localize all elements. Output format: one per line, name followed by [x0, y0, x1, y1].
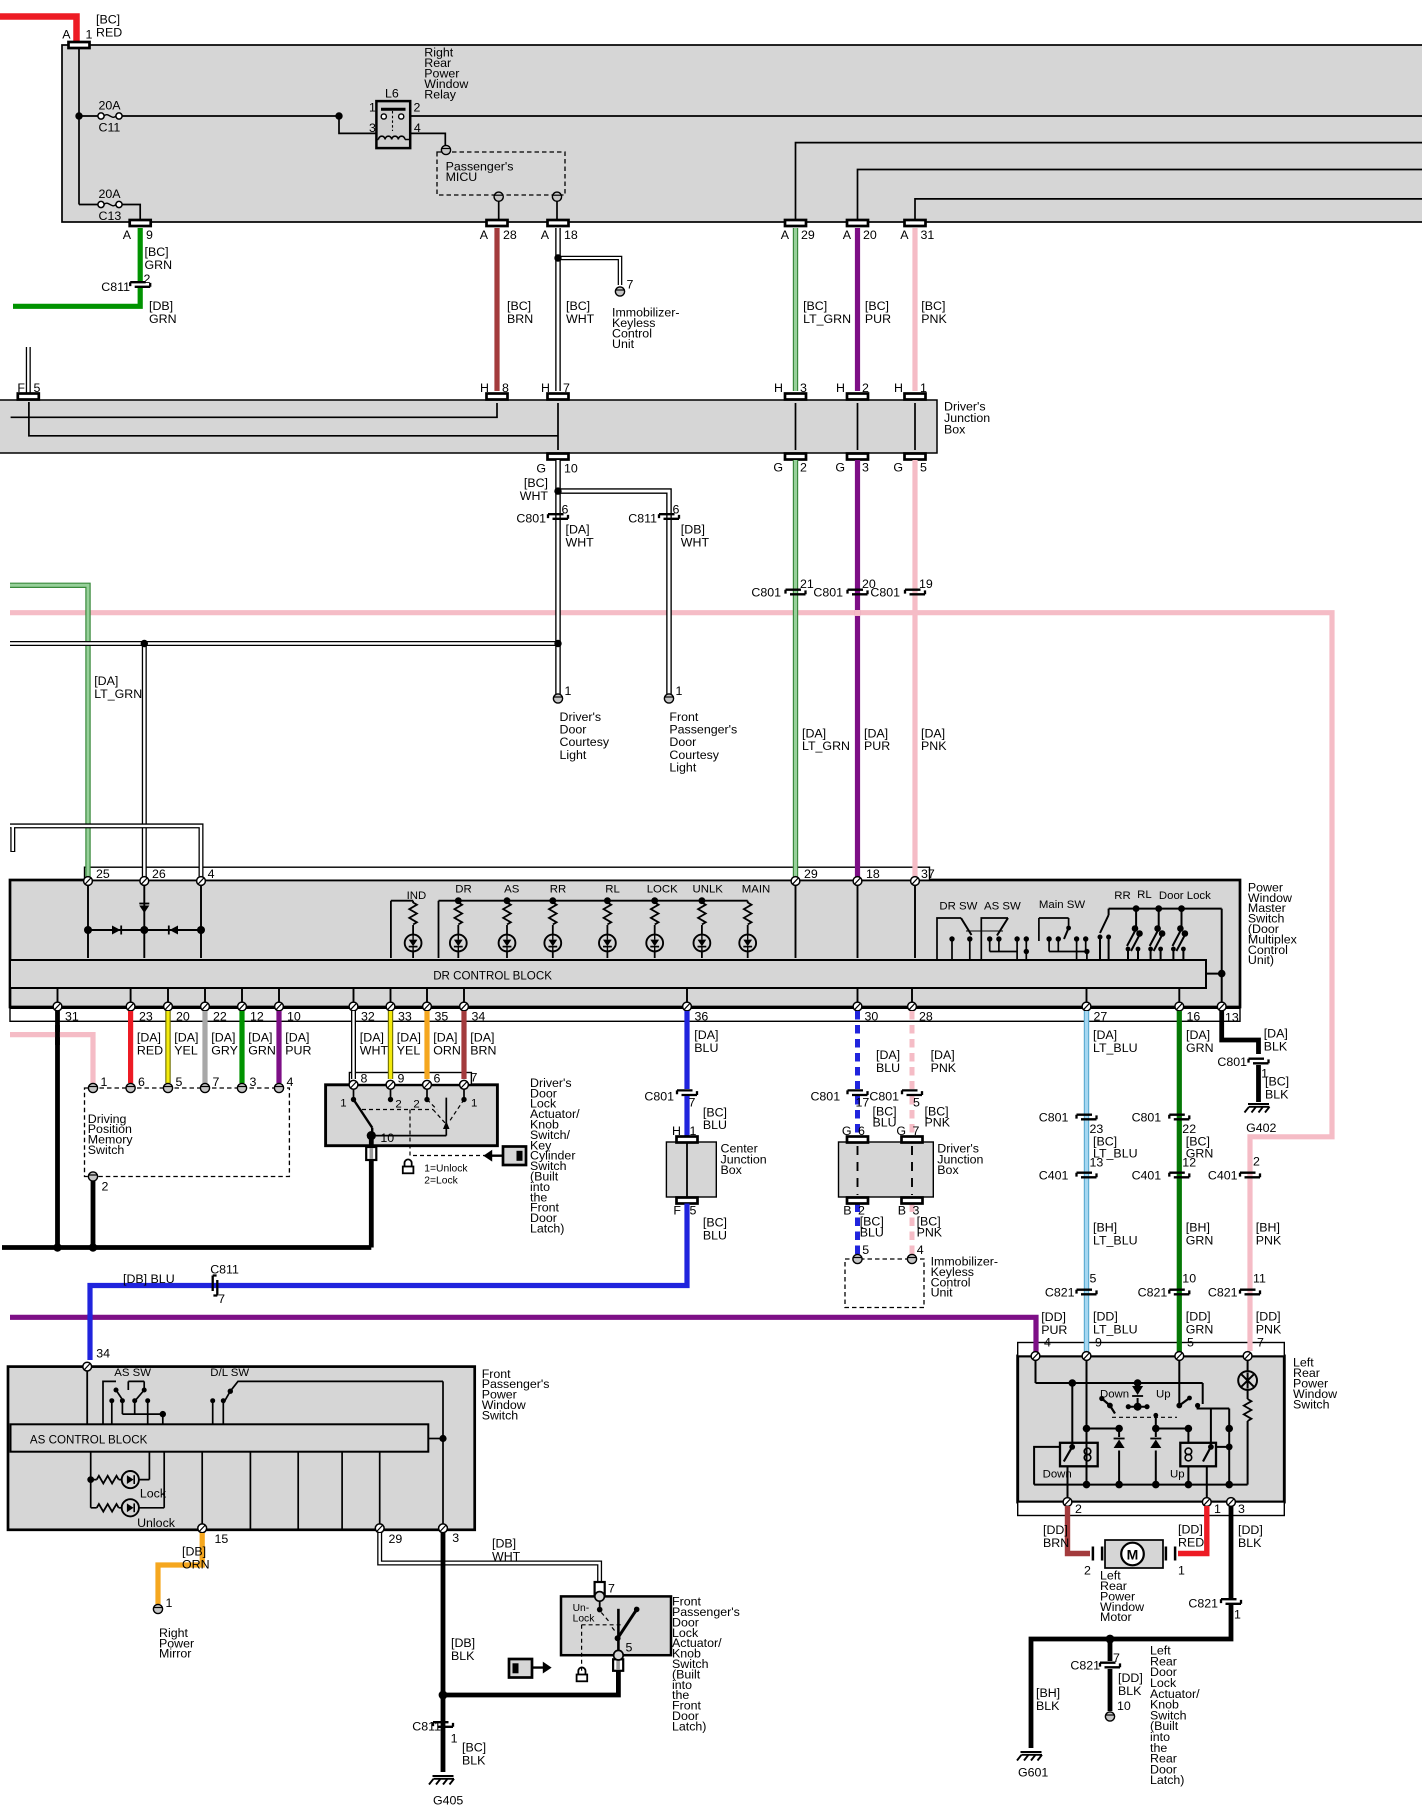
- svg-text:C801: C801: [1217, 1055, 1247, 1069]
- svg-text:G405: G405: [433, 1794, 463, 1808]
- svg-text:A: A: [900, 228, 909, 242]
- svg-text:1: 1: [86, 28, 93, 42]
- svg-text:[DD]: [DD]: [1178, 1523, 1203, 1537]
- svg-text:BLK: BLK: [1265, 1087, 1289, 1101]
- svg-text:[DB]: [DB]: [492, 1537, 516, 1551]
- svg-text:33: 33: [398, 1010, 412, 1024]
- svg-text:C811: C811: [101, 280, 130, 294]
- svg-text:C801: C801: [810, 1090, 840, 1104]
- svg-text:C13: C13: [99, 209, 122, 223]
- svg-text:H: H: [894, 381, 903, 395]
- svg-text:LT_BLU: LT_BLU: [1093, 1233, 1138, 1247]
- svg-text:7: 7: [608, 1582, 615, 1596]
- svg-text:[DA]: [DA]: [397, 1030, 421, 1044]
- svg-text:4: 4: [287, 1075, 294, 1089]
- svg-text:16: 16: [1187, 1010, 1201, 1024]
- svg-text:7: 7: [627, 278, 634, 292]
- svg-text:8: 8: [502, 381, 509, 395]
- svg-text:G: G: [893, 461, 903, 475]
- svg-text:C801: C801: [870, 586, 900, 600]
- svg-text:L6: L6: [385, 87, 399, 101]
- svg-text:A: A: [62, 28, 71, 42]
- svg-text:UNLK: UNLK: [693, 884, 724, 896]
- svg-text:AS: AS: [504, 884, 520, 896]
- svg-text:Down: Down: [1100, 1389, 1129, 1401]
- svg-text:[BH]: [BH]: [1256, 1220, 1280, 1234]
- svg-text:1: 1: [690, 1124, 697, 1138]
- svg-text:17: 17: [856, 1096, 870, 1110]
- svg-text:Box: Box: [944, 423, 966, 437]
- svg-text:1: 1: [1178, 1564, 1185, 1578]
- svg-text:5: 5: [690, 1204, 697, 1218]
- svg-text:5: 5: [176, 1075, 183, 1089]
- svg-text:PUR: PUR: [865, 312, 891, 326]
- svg-text:PNK: PNK: [931, 1061, 957, 1075]
- svg-text:[BC]: [BC]: [921, 299, 945, 313]
- svg-text:[DD]: [DD]: [1043, 1523, 1068, 1537]
- svg-text:11: 11: [1253, 1272, 1266, 1286]
- svg-text:RR: RR: [1114, 890, 1130, 902]
- svg-text:27: 27: [1094, 1010, 1108, 1024]
- svg-text:5: 5: [1090, 1272, 1097, 1286]
- svg-text:7: 7: [1257, 1336, 1264, 1350]
- svg-text:G402: G402: [1246, 1121, 1276, 1135]
- svg-text:29: 29: [801, 228, 815, 242]
- svg-text:[DA]: [DA]: [876, 1048, 900, 1062]
- svg-text:1: 1: [101, 1075, 108, 1089]
- svg-text:1: 1: [451, 1732, 458, 1746]
- svg-text:20: 20: [176, 1010, 190, 1024]
- svg-text:Box: Box: [721, 1163, 743, 1177]
- svg-text:LOCK: LOCK: [647, 884, 678, 896]
- svg-text:3: 3: [1238, 1502, 1245, 1516]
- svg-text:[BC]: [BC]: [703, 1215, 727, 1229]
- svg-text:G: G: [842, 1124, 852, 1138]
- svg-text:G: G: [835, 461, 845, 475]
- svg-text:Main SW: Main SW: [1039, 899, 1085, 911]
- svg-text:GRN: GRN: [248, 1043, 276, 1057]
- svg-text:5: 5: [920, 461, 927, 475]
- svg-text:RED: RED: [96, 26, 122, 40]
- svg-text:[BH]: [BH]: [1036, 1686, 1060, 1700]
- svg-text:B: B: [843, 1204, 851, 1218]
- svg-text:1=Unlock: 1=Unlock: [424, 1164, 468, 1175]
- svg-text:2: 2: [144, 272, 151, 286]
- svg-text:C811: C811: [628, 512, 657, 526]
- svg-text:[DA]: [DA]: [137, 1030, 161, 1044]
- svg-text:WHT: WHT: [360, 1043, 389, 1057]
- svg-text:Un-: Un-: [573, 1603, 590, 1614]
- svg-text:2: 2: [1253, 1155, 1260, 1169]
- svg-text:ORN: ORN: [433, 1043, 461, 1057]
- svg-text:29: 29: [389, 1532, 403, 1546]
- svg-text:PNK: PNK: [925, 1116, 951, 1130]
- svg-text:BLK: BLK: [1118, 1684, 1142, 1698]
- svg-text:[DB]: [DB]: [149, 299, 173, 313]
- svg-text:4: 4: [414, 121, 421, 135]
- svg-text:PNK: PNK: [921, 739, 947, 753]
- svg-text:5: 5: [913, 1096, 920, 1110]
- svg-text:35: 35: [435, 1010, 449, 1024]
- svg-text:[DA]: [DA]: [1093, 1028, 1117, 1042]
- svg-text:BRN: BRN: [1043, 1536, 1069, 1550]
- svg-text:1: 1: [920, 381, 927, 395]
- svg-text:1: 1: [369, 101, 376, 115]
- svg-text:Unlock: Unlock: [137, 1516, 176, 1530]
- svg-text:36: 36: [695, 1010, 709, 1024]
- svg-text:6: 6: [673, 503, 680, 517]
- svg-text:C401: C401: [1039, 1169, 1069, 1183]
- svg-text:28: 28: [919, 1010, 933, 1024]
- svg-text:25: 25: [96, 867, 110, 881]
- svg-text:WHT: WHT: [520, 489, 549, 503]
- svg-text:G601: G601: [1018, 1766, 1048, 1780]
- svg-text:5: 5: [34, 381, 41, 395]
- svg-text:AS CONTROL BLOCK: AS CONTROL BLOCK: [30, 1433, 148, 1446]
- svg-text:2: 2: [102, 1180, 109, 1194]
- svg-text:Switch: Switch: [88, 1143, 125, 1157]
- svg-text:5: 5: [862, 1243, 869, 1257]
- svg-text:31: 31: [65, 1010, 79, 1024]
- svg-text:Unit): Unit): [1248, 953, 1274, 967]
- svg-text:MAIN: MAIN: [742, 884, 770, 896]
- svg-text:BRN: BRN: [470, 1043, 496, 1057]
- svg-text:BLU: BLU: [876, 1061, 900, 1075]
- svg-text:C401: C401: [1132, 1169, 1162, 1183]
- svg-text:18: 18: [866, 867, 880, 881]
- svg-text:LT_GRN: LT_GRN: [803, 312, 851, 326]
- svg-text:[BH]: [BH]: [1186, 1220, 1210, 1234]
- svg-text:[DB]: [DB]: [451, 1636, 475, 1650]
- svg-text:D/L SW: D/L SW: [210, 1367, 249, 1379]
- svg-text:BRN: BRN: [507, 312, 533, 326]
- svg-text:WHT: WHT: [492, 1550, 521, 1564]
- svg-text:C801: C801: [869, 1090, 899, 1104]
- svg-text:[DA]: [DA]: [1264, 1027, 1288, 1041]
- svg-text:8: 8: [361, 1072, 368, 1086]
- svg-text:2: 2: [414, 101, 421, 115]
- svg-text:23: 23: [139, 1010, 153, 1024]
- svg-text:37: 37: [921, 867, 935, 881]
- svg-text:A: A: [480, 228, 489, 242]
- svg-text:[DA]: [DA]: [211, 1030, 235, 1044]
- svg-text:RL: RL: [1137, 889, 1152, 901]
- svg-text:Unit: Unit: [931, 1286, 954, 1300]
- svg-text:H: H: [836, 381, 845, 395]
- svg-text:26: 26: [152, 867, 166, 881]
- svg-text:C801: C801: [516, 512, 546, 526]
- svg-text:[BC]: [BC]: [1265, 1074, 1289, 1088]
- svg-text:C821: C821: [1208, 1286, 1238, 1300]
- svg-text:[DD]: [DD]: [1118, 1671, 1143, 1685]
- svg-text:F: F: [673, 1204, 681, 1218]
- svg-text:C801: C801: [644, 1090, 674, 1104]
- svg-text:AS SW: AS SW: [114, 1367, 151, 1379]
- svg-text:3: 3: [369, 121, 376, 135]
- svg-text:[DA]: [DA]: [174, 1030, 198, 1044]
- svg-text:Latch): Latch): [672, 1719, 706, 1733]
- svg-text:6: 6: [138, 1075, 145, 1089]
- svg-text:F: F: [17, 381, 25, 395]
- svg-text:[DA]: [DA]: [566, 523, 590, 537]
- svg-text:GRN: GRN: [1186, 1041, 1214, 1055]
- svg-text:[DA]: [DA]: [94, 674, 118, 688]
- svg-text:H: H: [672, 1124, 681, 1138]
- svg-text:34: 34: [472, 1010, 486, 1024]
- svg-text:7: 7: [563, 381, 570, 395]
- svg-text:6: 6: [858, 1124, 865, 1138]
- svg-text:PUR: PUR: [864, 739, 890, 753]
- svg-text:[BC]: [BC]: [803, 299, 827, 313]
- svg-text:RR: RR: [550, 884, 566, 896]
- svg-text:[DD]: [DD]: [1093, 1310, 1118, 1324]
- svg-text:[DD]: [DD]: [1256, 1310, 1281, 1324]
- svg-text:34: 34: [96, 1346, 110, 1360]
- svg-text:PNK: PNK: [1256, 1233, 1282, 1247]
- svg-text:ORN: ORN: [182, 1558, 210, 1572]
- svg-text:3: 3: [250, 1075, 257, 1089]
- svg-text:1: 1: [1214, 1502, 1221, 1516]
- svg-text:BLU: BLU: [873, 1116, 897, 1130]
- svg-text:BLU: BLU: [694, 1041, 718, 1055]
- svg-text:13: 13: [1225, 1011, 1239, 1025]
- svg-text:9: 9: [1095, 1336, 1102, 1350]
- svg-text:Unit: Unit: [612, 337, 635, 351]
- svg-text:3: 3: [452, 1531, 459, 1545]
- svg-text:12: 12: [1182, 1156, 1196, 1170]
- svg-text:IND: IND: [407, 890, 427, 902]
- svg-text:1: 1: [471, 1098, 477, 1110]
- svg-text:21: 21: [800, 577, 814, 591]
- svg-text:6: 6: [562, 503, 569, 517]
- svg-text:[BC]: [BC]: [566, 299, 590, 313]
- svg-text:[DA]: [DA]: [470, 1030, 494, 1044]
- svg-text:H: H: [541, 381, 550, 395]
- svg-text:G: G: [773, 461, 783, 475]
- svg-text:G: G: [896, 1124, 906, 1138]
- svg-text:MICU: MICU: [446, 170, 478, 184]
- svg-text:Motor: Motor: [1100, 1610, 1132, 1624]
- svg-text:[DA]: [DA]: [433, 1030, 457, 1044]
- svg-text:RED: RED: [1178, 1536, 1204, 1550]
- svg-text:LT_GRN: LT_GRN: [802, 739, 850, 753]
- svg-text:4: 4: [1044, 1336, 1051, 1350]
- svg-text:DR CONTROL BLOCK: DR CONTROL BLOCK: [433, 970, 552, 983]
- svg-text:C821: C821: [1138, 1286, 1168, 1300]
- svg-text:18: 18: [564, 228, 578, 242]
- svg-text:[BC]: [BC]: [462, 1741, 486, 1755]
- svg-text:Lock: Lock: [573, 1614, 596, 1625]
- svg-text:1: 1: [340, 1098, 346, 1110]
- svg-text:DR SW: DR SW: [939, 901, 977, 913]
- svg-text:BLK: BLK: [1238, 1536, 1262, 1550]
- svg-text:[DB] BLU: [DB] BLU: [123, 1272, 175, 1286]
- svg-text:PNK: PNK: [917, 1225, 943, 1239]
- svg-text:[BC]: [BC]: [96, 13, 120, 27]
- svg-text:[DA]: [DA]: [285, 1030, 309, 1044]
- svg-text:PUR: PUR: [285, 1043, 311, 1057]
- svg-text:GRN: GRN: [145, 258, 173, 272]
- svg-text:19: 19: [919, 577, 933, 591]
- svg-text:20: 20: [863, 228, 877, 242]
- svg-text:Mirror: Mirror: [159, 1647, 191, 1661]
- svg-text:3: 3: [862, 461, 869, 475]
- svg-text:WHT: WHT: [681, 536, 710, 550]
- svg-text:M: M: [1127, 1547, 1139, 1563]
- svg-text:10: 10: [1117, 1699, 1131, 1713]
- svg-text:BLK: BLK: [1036, 1699, 1060, 1713]
- svg-text:BLK: BLK: [1264, 1040, 1288, 1054]
- svg-text:WHT: WHT: [566, 536, 595, 550]
- svg-text:Box: Box: [937, 1163, 959, 1177]
- svg-text:1: 1: [676, 684, 683, 698]
- svg-text:Up: Up: [1170, 1469, 1185, 1481]
- svg-text:4: 4: [208, 867, 215, 881]
- svg-text:7: 7: [213, 1075, 220, 1089]
- svg-text:Relay: Relay: [424, 88, 456, 102]
- svg-text:2: 2: [413, 1099, 419, 1111]
- svg-text:[DA]: [DA]: [931, 1048, 955, 1062]
- svg-text:Switch: Switch: [482, 1408, 519, 1422]
- svg-text:[BH]: [BH]: [1093, 1220, 1117, 1234]
- svg-text:Latch): Latch): [1150, 1773, 1184, 1787]
- svg-text:BLK: BLK: [462, 1754, 486, 1768]
- svg-text:PNK: PNK: [921, 312, 947, 326]
- svg-text:H: H: [480, 381, 489, 395]
- svg-text:7: 7: [1113, 1651, 1120, 1665]
- svg-text:2: 2: [1075, 1502, 1082, 1516]
- svg-text:Light: Light: [560, 748, 587, 762]
- svg-text:Lock: Lock: [140, 1487, 167, 1501]
- svg-text:30: 30: [865, 1010, 879, 1024]
- svg-text:GRN: GRN: [1186, 1233, 1214, 1247]
- svg-text:5: 5: [1187, 1336, 1194, 1350]
- svg-text:DR: DR: [455, 884, 471, 896]
- svg-text:G: G: [536, 462, 546, 476]
- svg-text:[BC]: [BC]: [507, 299, 531, 313]
- svg-text:C11: C11: [99, 121, 121, 135]
- svg-text:4: 4: [917, 1243, 924, 1257]
- svg-text:Light: Light: [669, 761, 696, 775]
- svg-text:LT_BLU: LT_BLU: [1093, 1041, 1138, 1055]
- svg-text:[BC]: [BC]: [524, 476, 548, 490]
- svg-text:1: 1: [565, 684, 572, 698]
- svg-text:[BC]: [BC]: [145, 245, 169, 259]
- svg-text:Door Lock: Door Lock: [1159, 890, 1211, 902]
- svg-text:31: 31: [921, 228, 935, 242]
- svg-text:YEL: YEL: [174, 1043, 198, 1057]
- svg-text:9: 9: [398, 1072, 405, 1086]
- svg-text:9: 9: [146, 228, 153, 242]
- svg-text:LT_GRN: LT_GRN: [94, 687, 142, 701]
- svg-text:[DA]: [DA]: [360, 1030, 384, 1044]
- svg-text:[DD]: [DD]: [1238, 1523, 1263, 1537]
- svg-text:2: 2: [862, 381, 869, 395]
- svg-text:C821: C821: [1188, 1597, 1218, 1611]
- svg-text:GRY: GRY: [211, 1043, 238, 1057]
- svg-text:A: A: [843, 228, 852, 242]
- svg-text:29: 29: [804, 867, 818, 881]
- svg-text:6: 6: [434, 1072, 441, 1086]
- svg-text:22: 22: [213, 1010, 227, 1024]
- svg-text:5: 5: [626, 1641, 633, 1655]
- svg-text:2: 2: [1084, 1564, 1091, 1578]
- svg-text:1: 1: [166, 1596, 173, 1610]
- svg-text:[DB]: [DB]: [681, 523, 705, 537]
- svg-text:[DD]: [DD]: [1041, 1310, 1066, 1324]
- svg-text:[DD]: [DD]: [1186, 1310, 1211, 1324]
- svg-text:BLK: BLK: [451, 1649, 475, 1663]
- svg-text:3: 3: [800, 381, 807, 395]
- svg-text:10: 10: [380, 1131, 394, 1145]
- svg-text:BLU: BLU: [703, 1118, 727, 1132]
- svg-text:C811: C811: [210, 1262, 239, 1276]
- svg-text:BLU: BLU: [860, 1225, 884, 1239]
- svg-text:10: 10: [287, 1010, 301, 1024]
- svg-text:A: A: [781, 228, 790, 242]
- svg-text:28: 28: [503, 228, 517, 242]
- svg-text:2=Lock: 2=Lock: [424, 1176, 458, 1187]
- svg-text:A: A: [123, 228, 132, 242]
- svg-text:[DA]: [DA]: [1186, 1028, 1210, 1042]
- svg-text:C801: C801: [751, 586, 781, 600]
- svg-text:7: 7: [913, 1124, 920, 1138]
- svg-text:7: 7: [218, 1292, 225, 1306]
- svg-text:13: 13: [1090, 1156, 1104, 1170]
- svg-text:10: 10: [564, 462, 578, 476]
- svg-text:Switch: Switch: [1293, 1397, 1330, 1411]
- svg-text:15: 15: [215, 1532, 229, 1546]
- svg-text:C401: C401: [1208, 1169, 1238, 1183]
- svg-text:BLU: BLU: [703, 1228, 727, 1242]
- svg-text:32: 32: [361, 1010, 375, 1024]
- svg-text:2: 2: [800, 461, 807, 475]
- svg-text:Latch): Latch): [530, 1222, 564, 1236]
- svg-text:1: 1: [1234, 1608, 1241, 1622]
- svg-text:AS SW: AS SW: [984, 901, 1021, 913]
- svg-text:Down: Down: [1043, 1469, 1072, 1481]
- svg-text:20A: 20A: [99, 187, 122, 201]
- svg-text:WHT: WHT: [566, 312, 595, 326]
- svg-text:RED: RED: [137, 1043, 163, 1057]
- svg-text:[DA]: [DA]: [248, 1030, 272, 1044]
- svg-text:GRN: GRN: [149, 312, 177, 326]
- svg-text:[DA]: [DA]: [694, 1028, 718, 1042]
- svg-text:A: A: [541, 228, 550, 242]
- svg-text:[BC]: [BC]: [865, 299, 889, 313]
- svg-text:7: 7: [689, 1096, 696, 1110]
- svg-text:C801: C801: [1039, 1111, 1069, 1125]
- svg-text:YEL: YEL: [397, 1043, 421, 1057]
- svg-text:10: 10: [1182, 1272, 1196, 1286]
- svg-text:C811: C811: [412, 1720, 441, 1734]
- svg-text:7: 7: [471, 1071, 478, 1085]
- svg-text:C801: C801: [813, 586, 843, 600]
- svg-text:Up: Up: [1156, 1389, 1171, 1401]
- svg-text:RL: RL: [605, 884, 620, 896]
- svg-text:C821: C821: [1070, 1659, 1100, 1673]
- svg-text:12: 12: [250, 1010, 264, 1024]
- svg-text:2: 2: [395, 1099, 401, 1111]
- svg-text:C801: C801: [1132, 1111, 1162, 1125]
- svg-text:20A: 20A: [99, 99, 122, 113]
- svg-text:B: B: [898, 1204, 906, 1218]
- svg-text:H: H: [774, 381, 783, 395]
- svg-text:C821: C821: [1045, 1286, 1075, 1300]
- svg-text:[DB]: [DB]: [182, 1545, 206, 1559]
